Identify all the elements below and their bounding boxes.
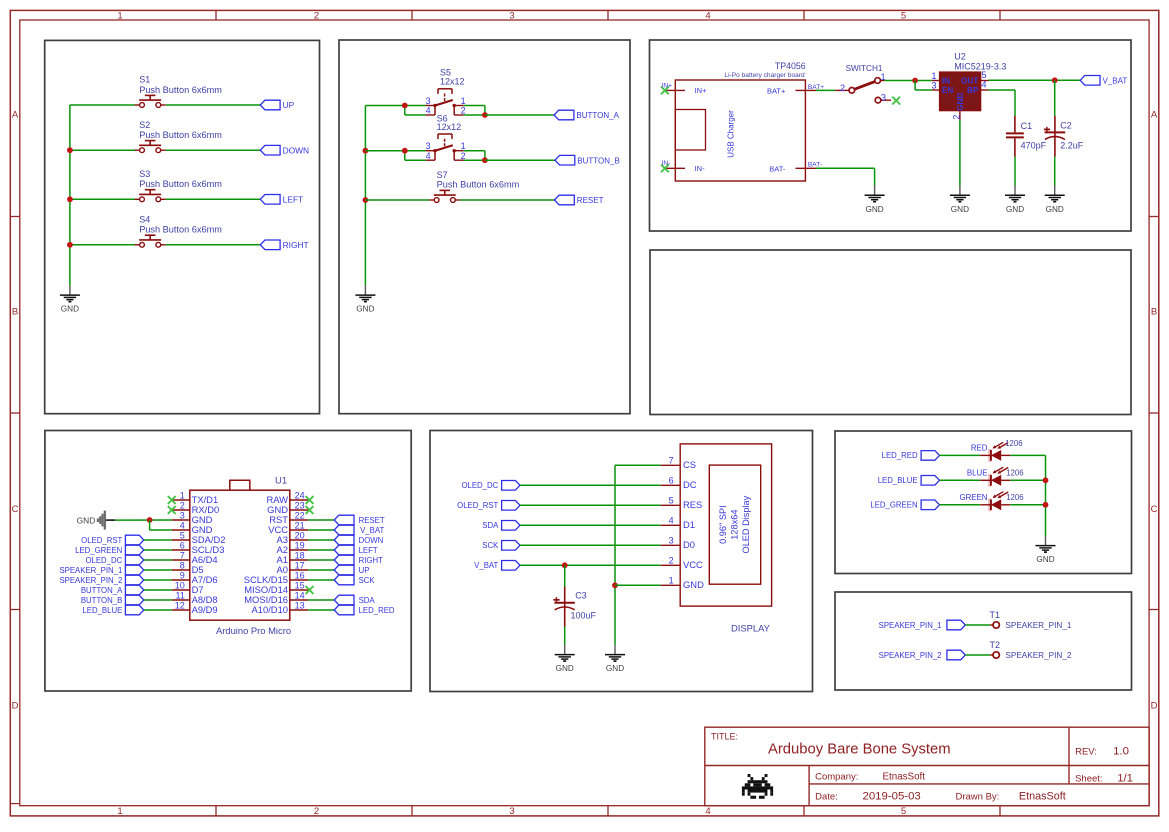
svg-text:DC: DC xyxy=(683,479,697,490)
wire RIGHT from U1 xyxy=(308,559,334,561)
junction bus/S3 xyxy=(67,196,73,202)
wire RESET right segment xyxy=(460,199,554,201)
push button S3 xyxy=(135,169,223,202)
capacitor C1 470pF xyxy=(1006,116,1047,157)
svg-text:3: 3 xyxy=(509,806,514,817)
wire SDA from U1 xyxy=(308,599,334,601)
svg-text:C3: C3 xyxy=(575,591,587,601)
svg-text:RIGHT: RIGHT xyxy=(359,556,383,565)
svg-text:SCK: SCK xyxy=(359,576,376,585)
U1 right pins 24-13 xyxy=(244,490,308,615)
junction display GND xyxy=(612,582,618,588)
port LED_BLUE xyxy=(878,476,940,486)
section box MCU xyxy=(45,431,411,692)
svg-text:19: 19 xyxy=(295,540,305,550)
svg-text:DISPLAY: DISPLAY xyxy=(731,623,771,634)
svg-text:Li-Po battery charger board: Li-Po battery charger board xyxy=(724,72,805,79)
svg-text:LEFT: LEFT xyxy=(359,546,378,555)
frame column ticks bottom xyxy=(216,806,1000,816)
wire OLED_RST to display xyxy=(520,504,661,506)
junction LED bus blue xyxy=(1043,477,1049,483)
wire LED GREEN cathode to bus xyxy=(1010,504,1045,506)
frame column labels bottom xyxy=(117,806,906,817)
svg-text:14: 14 xyxy=(295,590,305,600)
svg-text:BP: BP xyxy=(967,86,979,95)
svg-text:BUTTON_B: BUTTON_B xyxy=(81,596,122,605)
svg-text:2019-05-03: 2019-05-03 xyxy=(863,791,921,803)
wire V_BAT to display xyxy=(520,564,661,566)
svg-text:CS: CS xyxy=(683,459,696,470)
ground (C2) xyxy=(1045,186,1065,214)
ground (BAT-) xyxy=(865,186,885,214)
svg-text:Push Button 6x6mm: Push Button 6x6mm xyxy=(139,225,222,235)
svg-text:3: 3 xyxy=(931,80,936,90)
svg-text:18: 18 xyxy=(295,550,305,560)
junction VCC/C3 xyxy=(562,562,568,568)
svg-text:SPEAKER_PIN_1: SPEAKER_PIN_1 xyxy=(59,566,122,575)
wire CS to GND net xyxy=(615,464,661,466)
svg-text:IN-: IN- xyxy=(662,160,671,167)
wire OLED_DC to display xyxy=(520,484,661,486)
svg-text:1: 1 xyxy=(117,10,122,21)
regulator U2 MIC5219-3.3 xyxy=(931,52,1006,120)
wire U2 OUT to V_BAT xyxy=(989,79,1081,81)
capacitor C2 2.2uF polarized xyxy=(1044,116,1084,157)
svg-text:2: 2 xyxy=(669,556,674,566)
svg-text:2: 2 xyxy=(314,806,319,817)
svg-text:Push Button 6x6mm: Push Button 6x6mm xyxy=(139,85,222,95)
wire BUTTON_A to U1 xyxy=(144,589,172,591)
port UP xyxy=(260,100,294,110)
wire OLED_RST to U1 xyxy=(144,539,172,541)
wire EN strap xyxy=(914,81,916,91)
push button S2 xyxy=(135,120,223,153)
svg-text:S1: S1 xyxy=(139,75,150,85)
wire C2 to OUT xyxy=(1054,80,1056,116)
wire BUTTON_B left segment xyxy=(365,150,425,152)
ground (A/B/reset section) xyxy=(355,285,375,313)
port LED_RED xyxy=(882,451,940,461)
svg-text:MIC5219-3.3: MIC5219-3.3 xyxy=(954,62,1006,72)
wire SPEAKER_PIN_2 xyxy=(965,654,990,656)
wire LED_BLUE to U1 xyxy=(144,609,172,611)
svg-text:OLED_RST: OLED_RST xyxy=(457,501,498,510)
svg-text:SDA: SDA xyxy=(482,521,499,530)
ground (C1) xyxy=(1005,186,1025,214)
svg-text:A: A xyxy=(12,110,19,121)
ground (buttons section) xyxy=(60,285,80,313)
port LED_RED (U1 side) xyxy=(334,605,395,615)
svg-text:UP: UP xyxy=(359,566,370,575)
svg-text:V_BAT: V_BAT xyxy=(1103,77,1128,86)
svg-text:24: 24 xyxy=(295,490,305,500)
junction bus/S7 xyxy=(363,197,369,203)
frame row labels left xyxy=(12,110,19,712)
svg-text:SPEAKER_PIN_1: SPEAKER_PIN_1 xyxy=(1005,621,1071,630)
svg-text:U2: U2 xyxy=(954,52,966,62)
section box empty xyxy=(650,250,1131,415)
ground (C3) xyxy=(555,645,575,673)
wire GND bus (buttons S1-S4) xyxy=(69,105,71,285)
port OLED_DC (U1 side) xyxy=(85,555,143,565)
svg-text:2: 2 xyxy=(314,10,319,21)
port OLED_DC (display side) xyxy=(461,481,520,491)
port SPEAKER_PIN_1 (U1 side) xyxy=(59,565,143,575)
junction GND strap xyxy=(147,517,153,523)
svg-text:3: 3 xyxy=(669,536,674,546)
junction S6 strap left xyxy=(402,148,408,154)
push button S7 xyxy=(429,170,520,202)
junction IN/EN xyxy=(912,78,918,84)
wire S6 pins 1-2 strap xyxy=(464,150,485,152)
U1 left pins 1-12 xyxy=(172,490,226,615)
wire OLED_DC to U1 xyxy=(144,559,172,561)
wire RESET from U1 xyxy=(308,519,334,521)
test point T1 xyxy=(990,610,1001,628)
no-connect switch pin 3 xyxy=(892,97,900,105)
wire BUTTON_A left segment xyxy=(365,105,425,107)
svg-text:D1: D1 xyxy=(683,519,695,530)
ground (display) xyxy=(605,645,625,673)
port BUTTON_B (U1 side) xyxy=(81,595,144,605)
junction S6 strap right xyxy=(482,157,488,163)
svg-text:13: 13 xyxy=(295,600,305,610)
svg-text:OLED_DC: OLED_DC xyxy=(85,556,122,565)
frame row ticks left xyxy=(10,217,19,610)
svg-text:15: 15 xyxy=(295,580,305,590)
port LED_GREEN xyxy=(870,500,939,510)
svg-text:BUTTON_A: BUTTON_A xyxy=(81,586,123,595)
svg-text:OLED_DC: OLED_DC xyxy=(461,481,498,490)
junction LED bus green xyxy=(1043,502,1049,508)
port V_BAT xyxy=(1080,76,1127,86)
wire DOWN net right segment xyxy=(166,149,260,151)
svg-text:UP: UP xyxy=(283,100,295,110)
svg-text:3: 3 xyxy=(180,510,185,520)
frame column labels top xyxy=(117,10,906,21)
svg-text:C2: C2 xyxy=(1060,121,1072,131)
wire CS-GND vertical xyxy=(614,465,616,645)
svg-text:128x64: 128x64 xyxy=(730,510,740,540)
svg-text:Drawn By:: Drawn By: xyxy=(956,792,1000,803)
svg-text:2: 2 xyxy=(180,500,185,510)
wire C1 to ground xyxy=(1014,157,1016,186)
wire S5 pins 3-4 strap xyxy=(404,106,406,116)
module TP4056 Li-Po charger board xyxy=(666,61,816,181)
svg-text:20: 20 xyxy=(295,530,305,540)
svg-text:6: 6 xyxy=(180,540,185,550)
wire C2 to ground xyxy=(1054,157,1056,186)
wire BUTTON_A right segment xyxy=(485,114,554,116)
frame row labels right xyxy=(1151,110,1158,712)
no-connect U1 pin 1 xyxy=(168,496,176,504)
svg-text:C: C xyxy=(12,504,19,515)
svg-text:SPEAKER_PIN_2: SPEAKER_PIN_2 xyxy=(1005,651,1071,660)
svg-text:C1: C1 xyxy=(1021,121,1033,131)
wire LED GND bus xyxy=(1045,455,1047,536)
svg-text:Company:: Company: xyxy=(815,772,858,783)
svg-text:470pF: 470pF xyxy=(1021,140,1047,150)
svg-text:DOWN: DOWN xyxy=(359,536,384,545)
port SPEAKER_PIN_1 xyxy=(879,620,966,630)
svg-text:BUTTON_A: BUTTON_A xyxy=(576,111,619,120)
wire BUTTON_B right segment xyxy=(485,159,555,161)
svg-text:1206: 1206 xyxy=(1005,439,1022,448)
svg-text:12x12: 12x12 xyxy=(440,77,465,87)
port BUTTON_B xyxy=(555,155,620,165)
wire DOWN from U1 xyxy=(308,539,334,541)
wire LED BLUE cathode to bus xyxy=(1010,479,1045,481)
wire S6 pins 3-4 strap xyxy=(404,151,406,161)
svg-text:B: B xyxy=(1151,307,1157,318)
svg-text:C: C xyxy=(1151,504,1158,515)
section box A/B/reset buttons xyxy=(339,40,630,414)
svg-text:1206: 1206 xyxy=(1006,469,1023,478)
svg-text:5: 5 xyxy=(901,806,906,817)
no-connect IN+ xyxy=(661,87,669,95)
svg-text:16: 16 xyxy=(295,570,305,580)
svg-text:4: 4 xyxy=(180,520,185,530)
wire LED_RED to LED xyxy=(940,454,981,456)
svg-text:4: 4 xyxy=(705,806,710,817)
svg-text:5: 5 xyxy=(180,530,185,540)
svg-text:GND: GND xyxy=(77,515,96,525)
junction OUT/C2 xyxy=(1052,77,1058,83)
svg-text:8: 8 xyxy=(180,560,185,570)
svg-text:LED_RED: LED_RED xyxy=(882,451,918,460)
svg-text:RES: RES xyxy=(683,499,702,510)
svg-text:Arduboy Bare Bone System: Arduboy Bare Bone System xyxy=(768,742,951,758)
svg-text:B: B xyxy=(12,307,18,318)
test point T2 xyxy=(990,640,1001,658)
no-connect U1 pin 23 xyxy=(306,506,314,514)
svg-text:BUTTON_B: BUTTON_B xyxy=(577,156,620,165)
port RIGHT (U1 side) xyxy=(334,555,383,565)
wire RESET left segment xyxy=(365,199,429,201)
wire LEFT from U1 xyxy=(308,549,334,551)
module DISPLAY 0.96in SPI OLED body xyxy=(661,444,772,634)
svg-text:23: 23 xyxy=(295,500,305,510)
LED RED 1206 xyxy=(971,439,1023,462)
port LEFT (U1 side) xyxy=(334,545,378,555)
svg-text:GREEN: GREEN xyxy=(959,493,987,502)
svg-text:V_BAT: V_BAT xyxy=(474,561,498,570)
port RESET xyxy=(555,195,604,205)
svg-text:5: 5 xyxy=(901,10,906,21)
port SCK (U1 side) xyxy=(334,575,375,585)
wire BAT+ to switch xyxy=(816,89,835,91)
svg-text:1/1: 1/1 xyxy=(1117,772,1133,784)
wire U2 GND pin to ground xyxy=(959,120,961,186)
svg-text:EtnasSoft: EtnasSoft xyxy=(1019,791,1066,803)
ground (U2) xyxy=(950,186,970,214)
svg-text:BAT+: BAT+ xyxy=(767,87,786,96)
port DOWN (U1 side) xyxy=(334,535,383,545)
svg-text:Push Button 6x6mm: Push Button 6x6mm xyxy=(139,130,222,140)
wire S5 pins 1-2 strap xyxy=(464,105,485,107)
wire C3 to ground xyxy=(564,627,566,645)
svg-text:5: 5 xyxy=(669,496,674,506)
port BUTTON_A (U1 side) xyxy=(81,585,144,595)
port OLED_RST (U1 side) xyxy=(81,535,144,545)
push button S4 xyxy=(135,215,223,248)
tact switch S6 12x12 xyxy=(426,113,466,161)
wire RIGHT net left segment xyxy=(70,244,135,246)
svg-text:Sheet:: Sheet: xyxy=(1075,773,1102,784)
junction bus/S2 xyxy=(67,147,73,153)
section box power supply xyxy=(650,40,1132,231)
no-connect U1 pin 24 xyxy=(306,496,314,504)
svg-text:1: 1 xyxy=(180,490,185,500)
svg-text:BLUE: BLUE xyxy=(967,469,988,478)
svg-text:D: D xyxy=(1151,701,1158,712)
ground (LEDs) xyxy=(1036,536,1056,564)
port OLED_RST (display side) xyxy=(457,501,520,511)
svg-text:OLED_RST: OLED_RST xyxy=(81,536,122,545)
wire BAT- to ground xyxy=(816,167,875,169)
wire SPEAKER_PIN_1 to U1 xyxy=(144,569,172,571)
port V_BAT (U1 side) xyxy=(334,525,384,535)
wire DOWN net left segment xyxy=(70,149,135,151)
port UP (U1 side) xyxy=(334,565,369,575)
svg-text:22: 22 xyxy=(295,510,305,520)
logo space invader xyxy=(742,774,773,799)
svg-text:SPEAKER_PIN_2: SPEAKER_PIN_2 xyxy=(879,651,942,660)
svg-text:Date:: Date: xyxy=(815,792,838,803)
svg-text:USB Charger: USB Charger xyxy=(727,110,736,158)
LED BLUE 1206 xyxy=(967,467,1024,487)
svg-text:12x12: 12x12 xyxy=(437,122,462,132)
svg-text:3: 3 xyxy=(509,10,514,21)
svg-text:2: 2 xyxy=(952,115,962,120)
wire SPEAKER_PIN_2 to U1 xyxy=(144,579,172,581)
svg-text:RED: RED xyxy=(971,444,988,453)
power flag GND (U1) xyxy=(77,511,115,530)
svg-text:SPEAKER_PIN_1: SPEAKER_PIN_1 xyxy=(879,621,942,630)
svg-text:SDA: SDA xyxy=(359,596,376,605)
LED GREEN 1206 xyxy=(959,492,1023,512)
port BUTTON_A xyxy=(554,110,619,120)
junction bus/S4 xyxy=(67,242,73,248)
no-connect U1 pin 2 xyxy=(168,506,176,514)
frame column ticks top xyxy=(216,10,1000,20)
tact switch S5 12x12 xyxy=(426,68,466,116)
section box LEDs xyxy=(835,431,1132,574)
svg-text:S3: S3 xyxy=(139,169,150,179)
svg-text:D: D xyxy=(12,701,19,712)
svg-text:BAT-: BAT- xyxy=(769,165,786,174)
wire RIGHT net right segment xyxy=(166,244,260,246)
wire LED_RED from U1 xyxy=(308,609,334,611)
svg-text:7: 7 xyxy=(669,456,674,466)
svg-text:LED_BLUE: LED_BLUE xyxy=(82,606,122,615)
capacitor C3 100uF polarized xyxy=(553,587,596,627)
svg-text:REV:: REV: xyxy=(1075,746,1097,757)
wire LEFT net right segment xyxy=(166,198,260,200)
wire display GND pin xyxy=(615,584,661,586)
wire SPEAKER_PIN_1 xyxy=(965,624,990,626)
svg-text:5: 5 xyxy=(981,70,986,80)
svg-text:LED_RED: LED_RED xyxy=(359,606,395,615)
svg-text:EtnasSoft: EtnasSoft xyxy=(883,772,926,783)
svg-text:A10/D10: A10/D10 xyxy=(252,604,288,615)
svg-text:A: A xyxy=(1151,110,1158,121)
svg-text:IN-: IN- xyxy=(695,164,706,173)
svg-text:4: 4 xyxy=(669,516,674,526)
svg-text:7: 7 xyxy=(180,550,185,560)
svg-text:2.2uF: 2.2uF xyxy=(1060,140,1084,150)
port RIGHT xyxy=(260,240,308,250)
port SCK (display side) xyxy=(482,541,520,551)
svg-text:RESET: RESET xyxy=(359,516,385,525)
svg-text:1: 1 xyxy=(669,576,674,586)
svg-text:LED_BLUE: LED_BLUE xyxy=(878,476,918,485)
wire LED_GREEN to U1 xyxy=(144,549,172,551)
svg-text:Arduino Pro Micro: Arduino Pro Micro xyxy=(216,625,291,636)
svg-text:IN: IN xyxy=(942,77,950,86)
svg-text:RESET: RESET xyxy=(577,196,604,205)
svg-text:IN+: IN+ xyxy=(695,86,708,95)
svg-text:9: 9 xyxy=(180,570,185,580)
svg-text:1: 1 xyxy=(117,806,122,817)
svg-text:LEFT: LEFT xyxy=(283,195,303,205)
svg-text:3: 3 xyxy=(881,93,886,103)
wire BP to C1 xyxy=(989,89,1016,91)
title block xyxy=(705,727,1149,806)
wire GND bus (A/B/reset section) xyxy=(364,106,366,286)
svg-text:SCK: SCK xyxy=(482,541,499,550)
junction S5 strap left xyxy=(402,103,408,109)
wire LED_BLUE to LED xyxy=(940,479,981,481)
svg-text:DOWN: DOWN xyxy=(283,145,310,155)
svg-text:OUT: OUT xyxy=(961,77,978,86)
port V_BAT (display side) xyxy=(474,561,520,571)
svg-text:T2: T2 xyxy=(990,640,1001,650)
wire LED RED cathode to bus xyxy=(1010,454,1045,456)
svg-text:11: 11 xyxy=(175,590,184,600)
port LEFT xyxy=(260,195,303,205)
section box direction buttons xyxy=(45,40,320,413)
port SPEAKER_PIN_2 xyxy=(879,650,966,660)
svg-text:4: 4 xyxy=(705,10,710,21)
junction bus/S6 xyxy=(363,148,369,154)
svg-text:IN+: IN+ xyxy=(662,82,673,89)
svg-text:Push Button 6x6mm: Push Button 6x6mm xyxy=(139,179,222,189)
port RESET (U1 side) xyxy=(334,515,385,525)
svg-text:EN: EN xyxy=(942,86,953,95)
wire switch to U2 IN xyxy=(884,80,932,82)
mcu U1 Arduino Pro Micro body xyxy=(190,476,291,636)
frame corner step bottom-left xyxy=(10,803,19,805)
svg-text:S4: S4 xyxy=(139,215,150,225)
svg-text:S2: S2 xyxy=(139,120,150,130)
port DOWN xyxy=(260,145,309,155)
port SDA (U1 side) xyxy=(334,595,375,605)
svg-text:12: 12 xyxy=(175,600,185,610)
port LED_GREEN (U1 side) xyxy=(75,545,144,555)
svg-text:0.96" SPI: 0.96" SPI xyxy=(718,505,728,544)
svg-text:TP4056: TP4056 xyxy=(775,61,806,71)
svg-text:LED_GREEN: LED_GREEN xyxy=(75,546,122,555)
svg-text:RIGHT: RIGHT xyxy=(283,240,309,250)
svg-text:V_BAT: V_BAT xyxy=(360,526,384,535)
svg-text:17: 17 xyxy=(295,560,305,570)
svg-text:4: 4 xyxy=(981,80,986,90)
wire LEFT net left segment xyxy=(70,198,135,200)
svg-text:100uF: 100uF xyxy=(571,611,597,621)
svg-text:21: 21 xyxy=(295,520,305,530)
port SDA (display side) xyxy=(482,521,520,531)
